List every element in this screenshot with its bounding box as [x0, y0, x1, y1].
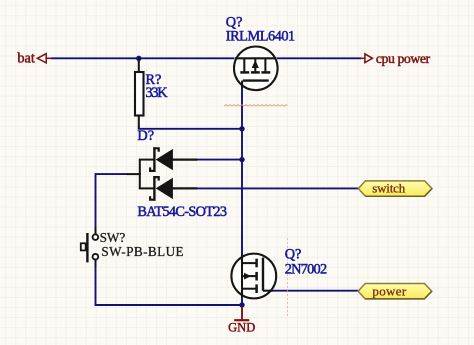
svg-text:bat: bat — [17, 50, 34, 66]
svg-text:D?: D? — [137, 128, 154, 144]
svg-text:BAT54C-SOT23: BAT54C-SOT23 — [137, 204, 227, 220]
svg-text:IRLML6401: IRLML6401 — [226, 29, 295, 45]
svg-text:33K: 33K — [146, 85, 169, 101]
svg-text:GND: GND — [228, 320, 255, 334]
svg-text:Q?: Q? — [285, 247, 302, 263]
svg-text:switch: switch — [372, 180, 406, 195]
svg-text:power: power — [372, 284, 406, 299]
svg-text:2N7002: 2N7002 — [285, 261, 327, 277]
svg-text:SW-PB-BLUE: SW-PB-BLUE — [101, 244, 183, 259]
svg-text:SW?: SW? — [100, 230, 126, 245]
svg-text:cpu power: cpu power — [376, 51, 431, 66]
